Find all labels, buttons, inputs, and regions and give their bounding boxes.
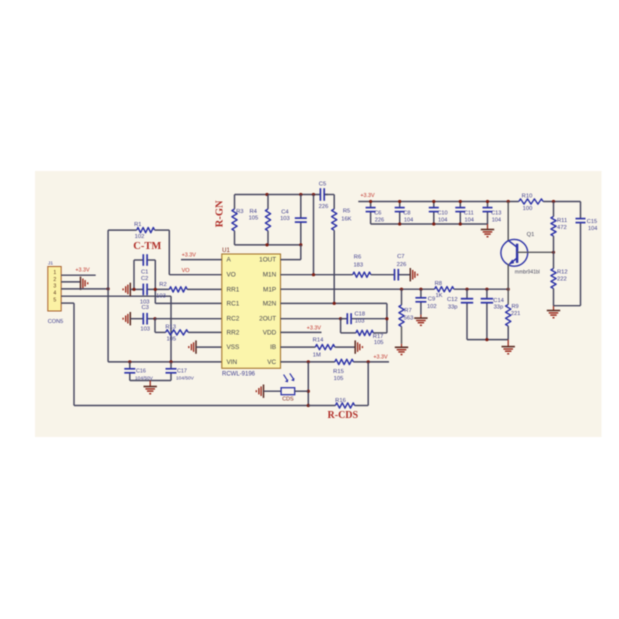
resistor R2 [156, 282, 187, 299]
svg-text:R13: R13 [165, 324, 176, 330]
resistor R16 [335, 398, 354, 408]
svg-text:C4: C4 [281, 209, 289, 215]
junction C3 right [153, 317, 156, 320]
resistor R8 [435, 281, 454, 299]
wire 3.3V rail [358, 201, 580, 203]
junction C16 top [128, 360, 131, 363]
svg-text:R3: R3 [236, 209, 243, 215]
svg-text:R12: R12 [557, 269, 568, 275]
wire M1P row [281, 288, 509, 290]
svg-text:103: 103 [140, 326, 150, 332]
svg-text:IB: IB [270, 344, 276, 351]
resistor R10 [519, 193, 543, 212]
svg-text:RCWL-9196: RCWL-9196 [222, 371, 256, 377]
junction C9 top [419, 288, 422, 291]
junction R7 top [400, 288, 403, 291]
svg-text:1OUT: 1OUT [259, 257, 276, 264]
connector J1 [48, 267, 61, 312]
junction C12 top [465, 288, 468, 291]
wire bottom bus [74, 405, 308, 407]
node +3.3V pin1 [75, 267, 90, 273]
wire RC2 row [155, 318, 222, 320]
ground cap bus [481, 224, 494, 237]
svg-text:VIN: VIN [227, 359, 238, 366]
ground C3 [123, 312, 130, 325]
svg-text:103: 103 [280, 216, 290, 222]
ground C7 [410, 268, 417, 281]
capacitor C18 [341, 312, 387, 325]
capacitor C2 [130, 284, 169, 306]
svg-text:R7: R7 [404, 308, 411, 314]
svg-text:R5: R5 [343, 209, 350, 215]
junction bottom C4 [299, 243, 302, 246]
svg-text:104: 104 [588, 226, 597, 232]
svg-text:33p: 33p [448, 304, 458, 310]
svg-text:226: 226 [375, 217, 384, 223]
junction loop right [385, 317, 388, 320]
wire Q1 emitter [507, 264, 509, 305]
wire 2OUT row [281, 318, 342, 320]
svg-text:J1: J1 [48, 261, 53, 267]
wire RR1 to chip [187, 288, 222, 290]
svg-text:C3: C3 [141, 305, 148, 311]
svg-text:102: 102 [427, 304, 437, 310]
junction bus C10 [432, 222, 435, 225]
resistor R4 [249, 195, 271, 245]
svg-text:+3.3V: +3.3V [373, 354, 388, 360]
svg-text:+3.3V: +3.3V [307, 326, 322, 332]
node +3.3V rail [360, 193, 375, 199]
wire R16 right [355, 362, 369, 406]
svg-text:183: 183 [353, 262, 363, 268]
capacitor C6 [366, 202, 385, 225]
ground R14 [355, 340, 362, 353]
wire R16 left [308, 405, 335, 407]
resistor R1 [134, 222, 155, 240]
svg-text:R9: R9 [512, 304, 519, 310]
label U1 [222, 248, 230, 254]
svg-text:VO: VO [182, 268, 191, 274]
junction bus C11 [459, 222, 462, 225]
wire VSS row [196, 346, 222, 348]
svg-text:R6: R6 [354, 255, 361, 261]
svg-text:C12: C12 [447, 297, 458, 303]
svg-text:C7: C7 [397, 254, 404, 260]
junction rail C13 [486, 200, 489, 203]
resistor R12 [551, 252, 568, 305]
ground pin2 [81, 277, 88, 290]
svg-text:105: 105 [374, 340, 384, 346]
wire VO row [169, 274, 222, 276]
wire pin5 [61, 303, 74, 405]
wire left bus vertical [107, 230, 109, 362]
capacitor C13 [483, 202, 502, 225]
svg-text:C5: C5 [319, 181, 326, 187]
wire cap bus [371, 223, 488, 225]
capacitor C17 [166, 362, 195, 382]
svg-text:C10: C10 [437, 210, 447, 216]
svg-text:U1: U1 [222, 248, 230, 254]
wire 1OUT [281, 245, 301, 260]
capacitor C7 [371, 254, 411, 280]
resistor R3 [232, 195, 244, 245]
wire C18 loop left [341, 319, 356, 333]
svg-text:RC2: RC2 [227, 316, 240, 323]
svg-text:C17: C17 [177, 368, 187, 374]
svg-text:R8: R8 [435, 281, 442, 287]
wire VIN row [108, 361, 222, 363]
capacitor C16 [124, 362, 153, 382]
wire C18 loop right [373, 303, 387, 333]
resistor R17 [356, 330, 384, 346]
resistor R11 [551, 202, 567, 253]
ground C9 [414, 315, 427, 326]
svg-text:3: 3 [53, 284, 56, 290]
label J1 [48, 261, 53, 267]
junction Q1 base [552, 251, 555, 254]
label R-GN [214, 200, 225, 227]
wire A pin [181, 259, 222, 261]
wire C12 C14 R9 bottom [467, 339, 508, 341]
junction M1N tap [312, 273, 315, 276]
junction bus C8 [398, 222, 401, 225]
wire pin4 [61, 296, 171, 362]
svg-text:R14: R14 [313, 338, 324, 344]
capacitor C11 [455, 202, 474, 225]
svg-text:M1N: M1N [263, 272, 277, 279]
svg-text:mmbr941bl: mmbr941bl [515, 270, 540, 276]
svg-text:16K: 16K [341, 216, 351, 222]
svg-text:C15: C15 [587, 219, 597, 225]
svg-text:104: 104 [404, 217, 413, 223]
svg-text:VDD: VDD [263, 329, 277, 336]
junction rail R4 [265, 193, 268, 196]
svg-text:104: 104 [465, 217, 474, 223]
svg-text:C2: C2 [141, 276, 148, 282]
svg-text:105: 105 [334, 376, 344, 382]
capacitor C15 [576, 202, 598, 306]
svg-text:1: 1 [53, 270, 56, 276]
ground C2 [123, 283, 130, 296]
svg-text:C1: C1 [141, 270, 148, 276]
capacitor C3 [130, 305, 155, 332]
svg-text:RC1: RC1 [227, 300, 240, 307]
svg-text:105: 105 [249, 216, 259, 222]
ground R7 [395, 344, 408, 355]
svg-text:R1: R1 [134, 222, 141, 228]
junction rail M1N tap [312, 193, 315, 196]
capacitor C9 [415, 289, 436, 314]
svg-text:104/50V: 104/50V [176, 376, 195, 382]
resistor R7 [399, 289, 413, 344]
svg-text:M2N: M2N [263, 300, 277, 307]
junction rail C8 [398, 200, 401, 203]
resistor R14 [313, 338, 335, 359]
capacitor C14 [481, 289, 505, 339]
svg-text:33p: 33p [494, 304, 504, 310]
svg-text:A: A [227, 257, 232, 264]
svg-text:R4: R4 [249, 209, 257, 215]
wire RR2 to chip [188, 331, 222, 333]
photoresistor CDS [281, 373, 295, 402]
svg-text:VSS: VSS [227, 344, 240, 351]
wire R12 C15 bottom [554, 305, 581, 307]
label CON5 [48, 319, 64, 325]
wire C1 left vertical [133, 260, 135, 289]
wire pin3 [61, 288, 108, 290]
wire M1N tap vertical [313, 195, 315, 275]
svg-text:226: 226 [397, 262, 407, 268]
svg-text:104: 104 [438, 217, 447, 223]
ground R12 [547, 306, 560, 318]
ground C16 C17 [144, 381, 157, 394]
junction CDS row [307, 390, 310, 393]
svg-text:5: 5 [53, 297, 56, 303]
svg-text:105: 105 [166, 336, 176, 342]
junction rail R11 [552, 200, 555, 203]
op-amp U1 RCWL-9196 body [222, 254, 281, 368]
wire CDS left [264, 390, 282, 392]
junction R5 bottom [333, 302, 336, 305]
wire M2N row [281, 302, 387, 304]
svg-text:2OUT: 2OUT [259, 316, 276, 323]
junction VC left [307, 360, 310, 363]
svg-text:C16: C16 [136, 368, 146, 374]
capacitor C5 [319, 181, 329, 210]
wire VDD stub [281, 331, 322, 333]
svg-text:102: 102 [135, 234, 145, 240]
junction rail C10 [432, 200, 435, 203]
svg-text:RR1: RR1 [227, 286, 240, 293]
junction VC right [367, 360, 370, 363]
svg-text:C9: C9 [428, 297, 435, 303]
svg-text:103: 103 [156, 293, 166, 299]
junction C2 right [154, 288, 157, 291]
svg-text:221: 221 [511, 311, 520, 317]
wire VC row [281, 361, 390, 363]
svg-text:R11: R11 [557, 218, 567, 224]
wire C3 down [155, 319, 166, 333]
ground R9 bottom [502, 340, 515, 354]
junction emitter row [507, 288, 510, 291]
svg-text:C8: C8 [403, 210, 410, 216]
wire R-GN bottom rail [235, 244, 301, 246]
resistor R9 [506, 304, 521, 340]
svg-text:R10: R10 [522, 193, 533, 199]
wire Q1 base [517, 251, 553, 253]
junction C2 left [132, 288, 135, 291]
node +3.3V VC [373, 354, 388, 360]
svg-text:CON5: CON5 [48, 319, 64, 325]
junction rail C4 [299, 193, 302, 196]
svg-text:4: 4 [53, 291, 56, 297]
svg-text:R-GN: R-GN [214, 200, 225, 227]
svg-text:M1P: M1P [263, 286, 276, 293]
svg-text:CDS: CDS [282, 397, 294, 403]
node +3.3V A pin [182, 253, 197, 259]
svg-text:222: 222 [557, 277, 567, 283]
wire R-GN top rail [235, 194, 335, 196]
svg-text:VC: VC [267, 359, 276, 366]
wire C1 right vertical [154, 260, 156, 303]
capacitor C4 [280, 195, 307, 245]
junction pin3-bus [107, 287, 110, 290]
node VO [182, 268, 191, 274]
svg-text:C13: C13 [491, 210, 501, 216]
svg-text:472: 472 [557, 225, 567, 231]
wire CDS branch vertical [307, 362, 309, 406]
svg-text:C-TM: C-TM [133, 241, 161, 252]
node +3.3V VDD [307, 326, 322, 332]
svg-text:226: 226 [319, 204, 329, 210]
svg-text:VO: VO [227, 272, 236, 279]
svg-text:2: 2 [53, 277, 56, 283]
wire R14 right [335, 346, 355, 348]
resistor R13 [165, 324, 188, 342]
wire R1 left [108, 229, 137, 231]
svg-text:1K: 1K [435, 293, 442, 299]
label C1 [141, 270, 148, 276]
svg-text:C6: C6 [374, 210, 381, 216]
transistor Q1 [501, 232, 540, 276]
wire M1N row [281, 274, 353, 276]
junction rail C11 [459, 200, 462, 203]
resistor R5 [332, 195, 352, 304]
capacitor C12 [447, 289, 473, 339]
wire pin2 [61, 281, 80, 283]
junction C17 top [169, 360, 172, 363]
svg-text:C11: C11 [464, 210, 474, 216]
svg-text:RR2: RR2 [227, 329, 240, 336]
junction C14 top [485, 288, 488, 291]
wire C16 C17 bottom [130, 380, 171, 382]
svg-text:R-CDS: R-CDS [328, 410, 359, 421]
ground VSS [189, 340, 196, 353]
capacitor C8 [395, 202, 414, 225]
svg-text:+3.3V: +3.3V [360, 193, 375, 199]
wire R1 right to VO [155, 230, 170, 275]
svg-text:+3.3V: +3.3V [75, 267, 90, 273]
wire Q1 collector [507, 202, 509, 241]
svg-text:103: 103 [355, 318, 365, 324]
label RCWL-9196 [222, 371, 256, 377]
svg-text:563: 563 [404, 315, 414, 321]
svg-text:Q1: Q1 [527, 232, 535, 238]
svg-text:C14: C14 [493, 298, 504, 304]
junction C18 left [339, 317, 342, 320]
junction bottom R4 [265, 243, 268, 246]
svg-text:1M: 1M [313, 353, 321, 359]
svg-text:104: 104 [492, 217, 501, 223]
svg-text:+3.3V: +3.3V [182, 253, 197, 259]
resistor R15 [333, 359, 353, 382]
junction bottom bus [307, 404, 310, 407]
junction rail C6 [369, 200, 372, 203]
label C2 [141, 276, 148, 282]
svg-text:100: 100 [523, 206, 533, 212]
wire RC1 row [155, 302, 222, 304]
wire CDS right [295, 390, 309, 392]
svg-text:R16: R16 [335, 398, 346, 404]
svg-text:R15: R15 [333, 369, 344, 375]
capacitor C10 [429, 202, 448, 225]
capacitor C1 [134, 254, 155, 266]
wire pin1 [61, 274, 95, 276]
junction C14 bottom [485, 338, 488, 341]
junction rail Q1 collector [507, 200, 510, 203]
resistor R6 [353, 255, 371, 278]
label R-CDS [328, 410, 359, 421]
label C-TM [133, 241, 161, 252]
ground CDS [256, 385, 263, 398]
svg-text:C18: C18 [354, 312, 365, 318]
wire IB row [281, 346, 316, 348]
svg-text:R2: R2 [159, 282, 166, 288]
